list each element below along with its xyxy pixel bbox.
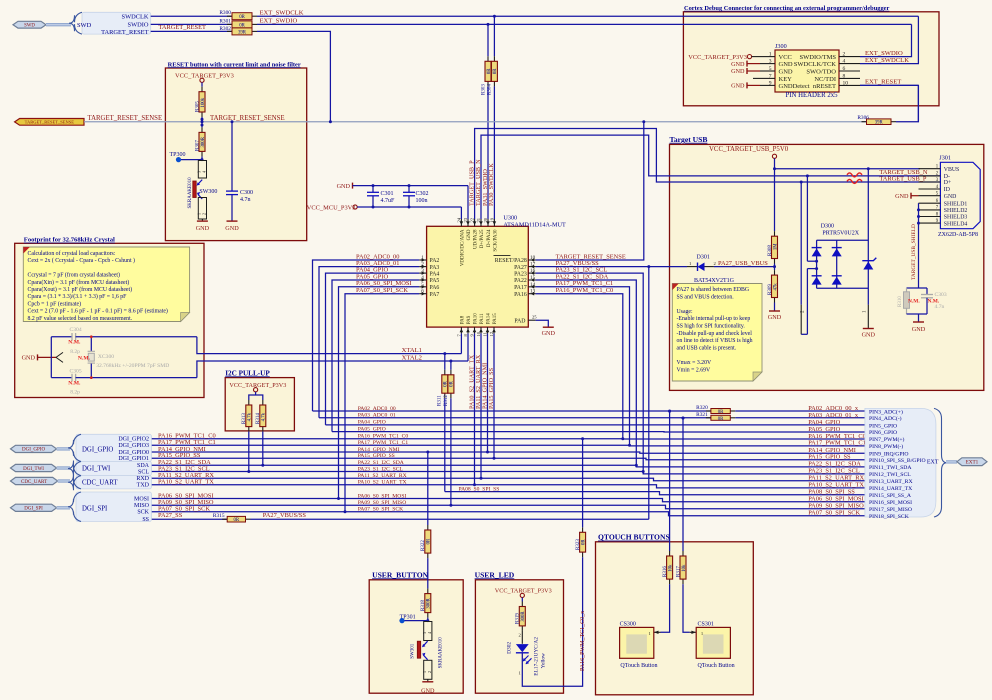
svg-text:PA27 is shared between EDBG: PA27 is shared between EDBG <box>677 287 750 293</box>
svg-text:PIN HEADER 2x5: PIN HEADER 2x5 <box>785 92 838 99</box>
svg-text:8: 8 <box>843 73 846 79</box>
svg-text:D301: D301 <box>697 254 710 260</box>
svg-text:VBUS: VBUS <box>944 167 959 173</box>
svg-text:PA14: PA14 <box>487 313 492 324</box>
svg-text:2: 2 <box>843 52 846 58</box>
svg-text:47k: 47k <box>773 283 778 291</box>
svg-text:TARGET_RESET_SENSE: TARGET_RESET_SENSE <box>25 120 75 125</box>
svg-text:GND: GND <box>862 332 876 339</box>
svg-text:PA23_S1_I2C_SCL: PA23_S1_I2C_SCL <box>358 466 404 472</box>
svg-text:SS: SS <box>142 517 149 523</box>
svg-text:12: 12 <box>489 331 494 336</box>
svg-text:R310: R310 <box>898 296 903 307</box>
svg-text:3: 3 <box>421 268 424 274</box>
svg-text:R301: R301 <box>219 18 231 24</box>
svg-text:20: 20 <box>483 217 488 222</box>
svg-text:N.M.: N.M. <box>908 298 920 304</box>
svg-text:PA22_S1_I2C_SDA: PA22_S1_I2C_SDA <box>358 460 404 466</box>
svg-text:3: 3 <box>769 59 772 65</box>
svg-text:SS high for SPI functionality.: SS high for SPI functionality. <box>677 323 746 330</box>
svg-text:R317: R317 <box>676 566 681 577</box>
svg-text:1: 1 <box>421 255 424 261</box>
svg-text:PA07_S0_SPI_SCK: PA07_S0_SPI_SCK <box>356 287 408 294</box>
svg-text:GND: GND <box>196 225 210 232</box>
svg-text:VDDIO/DC/ANA: VDDIO/DC/ANA <box>460 229 465 266</box>
svg-text:EL17-21UYC/A2: EL17-21UYC/A2 <box>534 637 540 676</box>
svg-text:PA16_PWM_TC1_C0: PA16_PWM_TC1_C0 <box>358 434 409 440</box>
svg-text:24: 24 <box>456 217 461 222</box>
svg-text:4.7n: 4.7n <box>240 197 251 203</box>
svg-text:on line to detect if VBUS is h: on line to detect if VBUS is high <box>677 337 753 344</box>
svg-text:CS300: CS300 <box>620 622 636 628</box>
svg-text:J300: J300 <box>775 43 787 50</box>
svg-text:32.768kHz +/-20PPM 7pF SMD: 32.768kHz +/-20PPM 7pF SMD <box>96 363 169 369</box>
svg-text:GND: GND <box>912 326 926 333</box>
svg-text:15: 15 <box>530 275 536 281</box>
svg-text:8.2p: 8.2p <box>70 349 80 355</box>
svg-text:GND: GND <box>944 194 957 200</box>
svg-text:TARGET_RESET: TARGET_RESET <box>159 24 207 31</box>
svg-text:PAD: PAD <box>514 318 525 324</box>
svg-text:R313: R313 <box>242 413 247 424</box>
svg-text:R306: R306 <box>857 115 869 121</box>
svg-text:PA9: PA9 <box>467 315 472 324</box>
svg-text:0R: 0R <box>581 539 586 545</box>
svg-text:NC/TDI: NC/TDI <box>814 76 836 83</box>
svg-text:D+/PA25: D+/PA25 <box>480 229 485 248</box>
svg-text:GND: GND <box>467 229 472 240</box>
svg-text:R316: R316 <box>663 566 668 577</box>
svg-text:ID: ID <box>944 187 950 193</box>
svg-text:-Enable internal pull-up to ke: -Enable internal pull-up to keep <box>677 316 751 322</box>
svg-text:4.7k: 4.7k <box>248 412 253 421</box>
svg-text:Target USB: Target USB <box>670 135 708 144</box>
svg-text:TARGET_RESET_SENSE: TARGET_RESET_SENSE <box>210 115 285 122</box>
svg-text:VCC_TARGET_P3V3: VCC_TARGET_P3V3 <box>688 54 747 61</box>
svg-text:DGI_GPIO0: DGI_GPIO0 <box>118 450 149 456</box>
svg-text:GND: GND <box>895 193 909 200</box>
svg-text:PA17_PWM_TC1_C1: PA17_PWM_TC1_C1 <box>808 440 866 447</box>
svg-text:ZX62D-AB-5P8: ZX62D-AB-5P8 <box>938 232 978 238</box>
svg-text:DGI_GPIO: DGI_GPIO <box>82 447 113 454</box>
svg-text:PA23: PA23 <box>514 271 527 277</box>
svg-text:PA17_PWM_TC1_C1: PA17_PWM_TC1_C1 <box>358 440 409 446</box>
svg-text:N.M.: N.M. <box>68 340 81 346</box>
svg-text:PA08_S0_SPI_SS: PA08_S0_SPI_SS <box>808 489 855 496</box>
svg-text:10k: 10k <box>682 564 687 572</box>
svg-text:PA16: PA16 <box>514 292 527 298</box>
svg-text:5: 5 <box>769 66 772 72</box>
svg-text:R318: R318 <box>421 600 426 611</box>
svg-text:PA08_S0_SPI_SS: PA08_S0_SPI_SS <box>459 486 500 492</box>
svg-text:SWO/TDO: SWO/TDO <box>806 68 836 75</box>
svg-text:PA15: PA15 <box>493 313 498 324</box>
svg-text:PA10: PA10 <box>474 313 479 324</box>
svg-text:R307: R307 <box>195 140 200 151</box>
svg-text:XTAL2: XTAL2 <box>402 355 422 362</box>
svg-text:MOSI: MOSI <box>134 496 149 502</box>
svg-text:R311: R311 <box>438 395 443 406</box>
svg-text:VCC_TARGET_P3V3: VCC_TARGET_P3V3 <box>229 382 286 389</box>
svg-text:9: 9 <box>769 80 772 86</box>
svg-text:PIN5_GPIO: PIN5_GPIO <box>869 423 897 429</box>
svg-text:SWDIO: SWDIO <box>128 21 149 28</box>
svg-text:TARGET_USB_N: TARGET_USB_N <box>475 159 482 206</box>
svg-text:PIN10_SPI_SS_B/GPIO: PIN10_SPI_SS_B/GPIO <box>869 458 926 464</box>
svg-text:PIN9_IRQ/GPIO: PIN9_IRQ/GPIO <box>869 452 909 458</box>
svg-text:GND: GND <box>731 61 745 68</box>
svg-text:2: 2 <box>421 262 424 268</box>
svg-text:Calculation of crystal load ca: Calculation of crystal load capacitors: <box>28 250 116 257</box>
svg-text:PIN6_GPIO: PIN6_GPIO <box>869 430 897 436</box>
svg-text:GND: GND <box>779 68 793 75</box>
svg-text:I2C PULL-UP: I2C PULL-UP <box>225 369 270 377</box>
svg-text:GND: GND <box>225 225 239 232</box>
svg-text:TARGET_RESET: TARGET_RESET <box>101 29 149 36</box>
svg-text:PRTR5V0U2X: PRTR5V0U2X <box>822 231 859 237</box>
svg-text:4: 4 <box>843 59 846 65</box>
svg-text:SCL: SCL <box>138 469 149 475</box>
svg-text:PA8: PA8 <box>460 315 465 324</box>
svg-text:R323: R323 <box>576 539 581 550</box>
svg-text:C300: C300 <box>240 190 253 196</box>
svg-text:DGI_GPIO1: DGI_GPIO1 <box>118 456 149 462</box>
svg-text:N.M.: N.M. <box>78 355 91 361</box>
svg-text:SHIELD2: SHIELD2 <box>944 208 968 214</box>
svg-text:EXT_SWDIO: EXT_SWDIO <box>865 50 903 57</box>
svg-text:PIN18_SPI_SCK: PIN18_SPI_SCK <box>869 514 910 520</box>
svg-text:PA22: PA22 <box>514 278 527 284</box>
svg-text:4: 4 <box>421 275 424 281</box>
svg-text:PIN12_TWI_SCL: PIN12_TWI_SCL <box>869 472 911 478</box>
svg-text:U300: U300 <box>503 215 517 222</box>
svg-text:SWD: SWD <box>24 24 35 29</box>
svg-text:PA03_ADC0_01_x: PA03_ADC0_01_x <box>808 412 859 419</box>
svg-text:11: 11 <box>483 331 488 336</box>
svg-text:8.2p: 8.2p <box>70 389 80 395</box>
svg-text:10: 10 <box>530 255 536 261</box>
svg-text:GND: GND <box>22 355 36 362</box>
svg-text:USER_BUTTON: USER_BUTTON <box>372 570 429 579</box>
svg-text:SW300: SW300 <box>199 189 217 195</box>
svg-text:C304: C304 <box>70 327 82 333</box>
svg-text:PA16_PWM_TC1_C0_x: PA16_PWM_TC1_C0_x <box>580 611 586 671</box>
svg-text:PA15_GPIO_SS: PA15_GPIO_SS <box>488 367 495 409</box>
svg-text:22: 22 <box>470 217 475 222</box>
svg-text:14: 14 <box>530 282 536 288</box>
svg-text:4.7k: 4.7k <box>262 412 267 421</box>
svg-text:CS301: CS301 <box>698 622 714 628</box>
svg-text:0R: 0R <box>493 68 498 74</box>
svg-text:R302: R302 <box>219 26 231 32</box>
svg-text:6: 6 <box>421 289 424 295</box>
svg-text:SWDCLK: SWDCLK <box>122 14 149 21</box>
svg-text:PA17: PA17 <box>514 285 527 291</box>
svg-text:R319: R319 <box>516 613 521 624</box>
svg-text:PA09_S0_SPI_MISO: PA09_S0_SPI_MISO <box>808 503 864 510</box>
svg-text:2: 2 <box>202 213 207 215</box>
svg-text:DGI_SPI: DGI_SPI <box>24 507 43 512</box>
svg-text:1M: 1M <box>773 243 778 250</box>
svg-text:10: 10 <box>476 331 481 336</box>
svg-text:PA27: PA27 <box>514 265 527 271</box>
svg-text:R321: R321 <box>696 412 708 418</box>
svg-text:PA5: PA5 <box>430 278 440 284</box>
svg-text:R303: R303 <box>481 84 486 95</box>
svg-text:PIN8_PWM(-): PIN8_PWM(-) <box>869 443 903 450</box>
svg-text:GND: GND <box>731 68 745 75</box>
svg-text:R305: R305 <box>195 101 200 112</box>
svg-text:QTouch Button: QTouch Button <box>620 663 657 669</box>
svg-text:GNDDetect: GNDDetect <box>779 83 810 90</box>
svg-text:GND: GND <box>542 330 556 337</box>
svg-text:R300: R300 <box>219 10 231 16</box>
svg-text:8.2 pF value selected based on: 8.2 pF value selected based on measureme… <box>28 316 133 322</box>
svg-text:GND: GND <box>779 61 793 68</box>
svg-text:PA06_S0_SPI_MOSI: PA06_S0_SPI_MOSI <box>358 493 407 499</box>
svg-text:PA4: PA4 <box>430 271 440 277</box>
svg-text:ATSAMD11D14A-MUT: ATSAMD11D14A-MUT <box>503 222 566 229</box>
svg-text:0R: 0R <box>450 380 455 386</box>
svg-text:SKRAAKE010: SKRAAKE010 <box>439 637 444 669</box>
svg-text:D302: D302 <box>507 642 513 654</box>
svg-text:GND: GND <box>731 83 745 90</box>
svg-text:SHIELD3: SHIELD3 <box>944 215 968 221</box>
svg-text:PIN4_ADC(-): PIN4_ADC(-) <box>869 415 902 422</box>
svg-text:100n: 100n <box>416 198 428 204</box>
svg-text:D+: D+ <box>944 180 951 186</box>
svg-text:PA04_GPIO: PA04_GPIO <box>358 420 386 426</box>
svg-text:0R: 0R <box>718 410 724 415</box>
svg-text:PA7: PA7 <box>430 292 440 298</box>
svg-text:PA02_ADC0_00: PA02_ADC0_00 <box>358 406 396 412</box>
svg-text:DGI_SPI: DGI_SPI <box>82 506 108 513</box>
svg-text:SDA: SDA <box>137 463 150 469</box>
svg-text:1: 1 <box>769 52 772 58</box>
svg-text:PA05_GPIO: PA05_GPIO <box>358 426 386 432</box>
svg-text:300R: 300R <box>427 598 432 609</box>
svg-text:GND: GND <box>421 687 435 694</box>
svg-text:5: 5 <box>421 282 424 288</box>
svg-text:PA22_S1_I2C_SDA: PA22_S1_I2C_SDA <box>808 461 861 468</box>
svg-text:GND: GND <box>337 183 351 190</box>
svg-text:VCC_TARGET_USB_P5V0: VCC_TARGET_USB_P5V0 <box>709 146 789 153</box>
svg-text:4.7n: 4.7n <box>935 304 945 310</box>
svg-text:and USB cable is present.: and USB cable is present. <box>677 345 737 351</box>
svg-text:PA3: PA3 <box>430 265 440 271</box>
svg-text:16: 16 <box>530 268 536 274</box>
svg-text:10: 10 <box>843 80 849 86</box>
svg-text:Cext = 2x ( Ccrystal - Cpara -: Cext = 2x ( Ccrystal - Cpara - Cpcb - Cs… <box>28 257 136 264</box>
svg-text:Cext = 2 (7.0 pF - 1.6 pF - 1: Cext = 2 (7.0 pF - 1.6 pF - 1 pF - 0.1 p… <box>28 308 168 315</box>
svg-text:DGI_GPIO: DGI_GPIO <box>22 448 45 453</box>
svg-text:QTouch Button: QTouch Button <box>698 663 735 669</box>
svg-text:PIN16_SPI_MOSI: PIN16_SPI_MOSI <box>869 500 912 506</box>
svg-text:PA27_SS: PA27_SS <box>158 512 183 519</box>
svg-text:PA30_SWDCLK: PA30_SWDCLK <box>488 163 495 206</box>
svg-text:17: 17 <box>530 262 536 268</box>
svg-text:nRESET: nRESET <box>813 83 836 90</box>
svg-text:PA07_S0_SPI_SCK: PA07_S0_SPI_SCK <box>358 507 404 513</box>
svg-text:R309: R309 <box>768 284 773 295</box>
svg-text:PA6: PA6 <box>430 285 440 291</box>
svg-text:10k: 10k <box>668 564 673 572</box>
svg-text:C302: C302 <box>416 191 429 197</box>
svg-text:PA14_GPIO_NMI: PA14_GPIO_NMI <box>358 447 400 453</box>
svg-text:UD/PA28: UD/PA28 <box>474 229 479 249</box>
svg-text:Yellow: Yellow <box>541 653 547 668</box>
svg-text:TARGET_USB_SHIELD: TARGET_USB_SHIELD <box>911 224 917 280</box>
svg-text:0R: 0R <box>718 417 724 422</box>
svg-text:PA05_GPIO: PA05_GPIO <box>808 426 840 433</box>
svg-text:PA07_S0_SPI_SCK: PA07_S0_SPI_SCK <box>808 510 860 517</box>
svg-text:SWDCLK/TCK: SWDCLK/TCK <box>794 61 837 68</box>
svg-text:XTAL1: XTAL1 <box>402 347 422 354</box>
svg-text:21: 21 <box>476 217 481 222</box>
svg-text:DGI_TWI: DGI_TWI <box>82 466 111 473</box>
svg-text:USER_LED: USER_LED <box>475 570 515 579</box>
svg-text:0R: 0R <box>239 15 245 20</box>
svg-text:R315: R315 <box>213 513 225 519</box>
svg-text:PIN7_PWM(+): PIN7_PWM(+) <box>869 436 905 443</box>
svg-text:300R: 300R <box>201 136 206 147</box>
svg-text:RESET/PA28: RESET/PA28 <box>495 258 527 264</box>
svg-text:QTOUCH BUTTONS: QTOUCH BUTTONS <box>598 533 670 542</box>
svg-text:C303: C303 <box>935 292 947 298</box>
svg-text:DGI_GPIO2: DGI_GPIO2 <box>118 437 149 443</box>
svg-text:R308: R308 <box>768 245 773 256</box>
svg-text:25: 25 <box>532 314 537 319</box>
svg-text:PIN11_TWI_SDA: PIN11_TWI_SDA <box>869 465 912 471</box>
svg-text:PIN15_SPI_SS_A: PIN15_SPI_SS_A <box>869 493 912 499</box>
svg-text:SW301: SW301 <box>410 643 415 659</box>
svg-text:R320: R320 <box>696 405 708 411</box>
svg-text:KEY: KEY <box>779 76 793 83</box>
svg-text:39R: 39R <box>875 121 884 126</box>
svg-text:PA10_S2_UART_TX: PA10_S2_UART_TX <box>358 480 407 486</box>
svg-text:N.M.: N.M. <box>68 380 81 386</box>
svg-text:EXT_RESET: EXT_RESET <box>865 79 901 86</box>
svg-text:DGI_GPIO3: DGI_GPIO3 <box>118 443 149 449</box>
svg-text:D-: D- <box>944 174 950 180</box>
svg-text:R314: R314 <box>256 413 261 424</box>
svg-text:PA09_S0_SPI_MISO: PA09_S0_SPI_MISO <box>358 500 407 506</box>
svg-text:TARGET_RESET_SENSE: TARGET_RESET_SENSE <box>88 115 163 122</box>
svg-text:EXT_SWDIO: EXT_SWDIO <box>260 18 298 25</box>
svg-text:EXT_SWDCLK: EXT_SWDCLK <box>865 57 909 64</box>
svg-text:Cpcb = 1 pF (estimate): Cpcb = 1 pF (estimate) <box>28 300 82 307</box>
svg-text:PA11_S2_UART_RX: PA11_S2_UART_RX <box>808 475 864 482</box>
svg-text:2: 2 <box>427 671 432 673</box>
svg-text:6: 6 <box>843 66 846 72</box>
svg-text:RESET button with current limi: RESET button with current limit and nois… <box>168 61 301 68</box>
svg-text:VCC_MCU_P3V3: VCC_MCU_P3V3 <box>307 204 356 211</box>
svg-text:Cpara(Xin) = 3.1 pF (from MCU: Cpara(Xin) = 3.1 pF (from MCU datasheet) <box>28 279 130 286</box>
svg-text:RXD: RXD <box>136 476 149 482</box>
svg-text:SHIELD1: SHIELD1 <box>944 201 968 207</box>
svg-text:PA16_PWM_TC1_C0: PA16_PWM_TC1_C0 <box>556 287 614 294</box>
svg-text:XC300: XC300 <box>98 354 114 360</box>
svg-text:PA27_VBUS/SS: PA27_VBUS/SS <box>263 512 307 519</box>
svg-text:PIN13_UART_RX: PIN13_UART_RX <box>869 479 913 485</box>
svg-text:Usage:: Usage: <box>677 309 693 315</box>
svg-text:100k: 100k <box>201 97 206 107</box>
svg-text:19: 19 <box>489 217 494 222</box>
svg-text:R322: R322 <box>421 540 426 551</box>
svg-text:SS and VBUS detection.: SS and VBUS detection. <box>677 294 735 300</box>
svg-text:PA03_ADC0_01: PA03_ADC0_01 <box>358 413 396 419</box>
svg-text:PA15_GPIO_SS: PA15_GPIO_SS <box>808 454 851 461</box>
svg-text:7: 7 <box>769 73 772 79</box>
svg-text:MISO: MISO <box>134 503 150 509</box>
svg-text:SKRAAKE010: SKRAAKE010 <box>188 177 193 209</box>
svg-text:PIN3_ADC(+): PIN3_ADC(+) <box>869 408 903 415</box>
svg-text:PIN14_UART_TX: PIN14_UART_TX <box>869 486 912 492</box>
svg-text:D300: D300 <box>821 224 834 230</box>
svg-text:TXD: TXD <box>137 483 150 489</box>
svg-text:Vmax = 3.20V: Vmax = 3.20V <box>677 360 712 366</box>
svg-text:Ccrystal = 7 pF (from crystal: Ccrystal = 7 pF (from crystal datasheet) <box>28 272 121 279</box>
svg-text:Cpara = (3.1 * 3.3)/(3.1 + 3.3: Cpara = (3.1 * 3.3)/(3.1 + 3.3) pF = 1,6… <box>28 293 128 300</box>
svg-text:4.7uF: 4.7uF <box>381 198 396 204</box>
svg-text:SWDIO/TMS: SWDIO/TMS <box>800 54 837 61</box>
svg-text:SCK/PA30: SCK/PA30 <box>493 229 498 252</box>
svg-text:VCC_TARGET_P3V3: VCC_TARGET_P3V3 <box>175 73 234 80</box>
svg-text:Footprint for 32.768kHz Crysta: Footprint for 32.768kHz Crystal <box>24 237 115 244</box>
svg-text:VCC: VCC <box>779 54 792 61</box>
svg-text:J301: J301 <box>939 155 951 162</box>
svg-text:39R: 39R <box>238 30 247 35</box>
svg-text:EXT: EXT <box>927 459 939 465</box>
svg-text:-Disable pull-up and check lev: -Disable pull-up and check level <box>677 331 753 337</box>
svg-text:Cortex Debug Connector for con: Cortex Debug Connector for connecting an… <box>684 5 890 12</box>
svg-text:Vmin = 2.69V: Vmin = 2.69V <box>677 367 712 373</box>
svg-text:0R: 0R <box>427 538 432 544</box>
svg-text:0R: 0R <box>234 518 240 523</box>
svg-text:PA11: PA11 <box>480 313 485 324</box>
svg-text:PA10_S2_UART_TX: PA10_S2_UART_TX <box>158 479 214 486</box>
svg-text:PA15_GPIO_SS: PA15_GPIO_SS <box>358 453 395 459</box>
svg-text:GND: GND <box>768 314 782 321</box>
svg-text:PIN17_SPI_MISO: PIN17_SPI_MISO <box>869 507 912 513</box>
svg-text:C305: C305 <box>70 368 82 374</box>
svg-text:D-/PA24: D-/PA24 <box>487 229 492 247</box>
svg-text:SCK: SCK <box>137 510 149 516</box>
svg-text:EXT1: EXT1 <box>966 460 979 466</box>
svg-text:CDC_UART: CDC_UART <box>21 480 47 485</box>
svg-text:13: 13 <box>530 289 536 295</box>
svg-text:300R: 300R <box>521 611 526 622</box>
svg-text:CDC_UART: CDC_UART <box>82 480 118 487</box>
svg-text:Cpara(Xout) = 3.1 pF (from MCU: Cpara(Xout) = 3.1 pF (from MCU datasheet… <box>28 286 133 293</box>
svg-text:BAT54XV2T1G: BAT54XV2T1G <box>694 278 735 284</box>
svg-text:DGI_TWI: DGI_TWI <box>23 467 44 472</box>
svg-text:23: 23 <box>463 217 468 222</box>
svg-text:SWD: SWD <box>77 22 92 29</box>
svg-text:C301: C301 <box>381 191 394 197</box>
svg-text:PA27_USB_VBUS: PA27_USB_VBUS <box>718 260 768 267</box>
svg-text:PA2: PA2 <box>430 258 440 264</box>
svg-text:PA11_S2_UART_RX: PA11_S2_UART_RX <box>358 473 407 479</box>
svg-text:SHIELD4: SHIELD4 <box>944 221 968 227</box>
